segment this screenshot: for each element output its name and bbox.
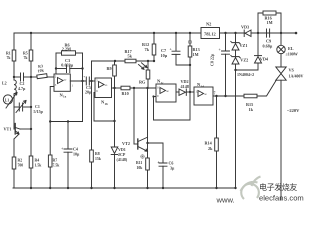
capacitor C8 column xyxy=(225,33,227,51)
svg-text:7k: 7k xyxy=(7,56,12,60)
wire N1c output xyxy=(176,91,179,93)
capacitor C3 xyxy=(67,65,70,73)
junction (235.5,70) xyxy=(234,69,236,71)
inductor L1 xyxy=(3,95,12,104)
resistor R11 xyxy=(146,158,150,170)
lamp EL xyxy=(280,33,282,45)
junction (56,68.5) xyxy=(55,67,57,69)
svg-text:RG: RG xyxy=(139,80,146,85)
resistor R7 xyxy=(48,155,52,167)
junction (163,188) xyxy=(162,187,164,189)
wire C6 branch xyxy=(148,143,164,163)
resistor R8 xyxy=(90,150,94,162)
svg-text:15k: 15k xyxy=(95,157,102,161)
junction (50.2,188) xyxy=(49,187,51,189)
wire C1 row xyxy=(14,106,19,108)
resistor R9 xyxy=(114,61,116,65)
capacitor C5 xyxy=(86,77,89,85)
wire R7 column xyxy=(49,122,51,156)
junction (258,33) xyxy=(257,32,259,34)
svg-text:12: 12 xyxy=(196,90,200,94)
svg-text:3µ: 3µ xyxy=(170,166,175,171)
wire C2 row xyxy=(14,76,20,78)
triac VS xyxy=(276,67,286,74)
capacitor C6 xyxy=(159,163,167,166)
resistor R13 column xyxy=(189,33,191,46)
junction (148,61) xyxy=(147,60,149,62)
junction (31,129) xyxy=(30,128,32,130)
junction (91.5,188) xyxy=(90,187,92,189)
zener VZ1 xyxy=(235,33,237,44)
wire C4 column xyxy=(67,122,69,149)
svg-text:+: + xyxy=(61,146,64,151)
svg-text:R2: R2 xyxy=(18,159,23,163)
wire N1b output row xyxy=(112,87,122,89)
wire left column x14 top xyxy=(13,33,15,50)
voltage regulator N2 box xyxy=(201,28,220,39)
junction (176,33) xyxy=(175,32,177,34)
resistor R17 xyxy=(125,59,136,63)
diode VD1 column xyxy=(114,155,116,189)
svg-text:10k: 10k xyxy=(137,166,144,170)
junction (154,61) xyxy=(153,60,155,62)
wire R13 down to VD2 node xyxy=(189,65,191,92)
svg-text:≤100W: ≤100W xyxy=(286,52,298,57)
junction (147.5,88) xyxy=(146,87,148,89)
wire top rail left xyxy=(14,32,201,34)
wire N1a output xyxy=(70,80,86,82)
junction (225.5,96) xyxy=(224,95,226,97)
wire R17 corner column xyxy=(91,61,93,81)
svg-text:+: + xyxy=(157,160,160,165)
junction (153.5,96.5) xyxy=(152,95,154,97)
wire bottom rail xyxy=(13,187,236,189)
junction (147.5,143) xyxy=(146,142,148,144)
svg-text:10: 10 xyxy=(157,86,161,90)
svg-text:R9: R9 xyxy=(107,66,112,71)
junction (31,188) xyxy=(30,187,32,189)
junction (82.5,81) xyxy=(81,80,83,82)
wire output column x82 xyxy=(82,53,84,122)
resistor R12 xyxy=(153,33,155,44)
mains terminal top xyxy=(295,32,298,35)
svg-text:R4: R4 xyxy=(35,159,40,163)
svg-text:7k: 7k xyxy=(145,47,150,52)
wire x31 column xyxy=(30,33,32,50)
svg-text:VS: VS xyxy=(289,68,295,73)
op-amp N1d xyxy=(194,87,213,105)
svg-text:20µ: 20µ xyxy=(85,90,92,95)
svg-text:2k: 2k xyxy=(208,146,213,151)
junction (225.5,33) xyxy=(224,32,226,34)
wire C5 to N1b xyxy=(89,80,95,82)
wire R4 to rail xyxy=(30,168,32,188)
capacitor C4 xyxy=(64,149,72,152)
svg-text:L1: L1 xyxy=(5,99,10,103)
wire R2 to rail xyxy=(13,169,15,188)
svg-text:(4148): (4148) xyxy=(117,157,128,162)
resistor R14 xyxy=(215,138,219,151)
svg-text:+: + xyxy=(83,75,85,79)
svg-text:1M: 1M xyxy=(267,20,273,25)
junction (14,77) xyxy=(13,76,15,78)
svg-text:10µ: 10µ xyxy=(73,152,80,157)
svg-text:1.5k: 1.5k xyxy=(35,164,43,168)
wire N1c underloop xyxy=(154,92,191,120)
op-amp N1c xyxy=(156,84,176,102)
wire collector xyxy=(20,128,31,130)
transistor VT1 xyxy=(14,124,16,135)
wire C3 row xyxy=(56,68,67,70)
resistor R2 xyxy=(12,157,16,169)
svg-text:1M: 1M xyxy=(193,52,199,57)
svg-text:5k: 5k xyxy=(128,54,133,59)
transistor VT2 xyxy=(137,139,139,149)
junction (114.5,121) xyxy=(113,120,115,122)
resistor R3 xyxy=(37,74,47,79)
junction (68,121.5) xyxy=(67,120,69,122)
wire R6 top left xyxy=(56,52,62,54)
junction (114.5,88) xyxy=(113,87,115,89)
wire L2 to VT1 base xyxy=(13,94,15,129)
wire R14 column xyxy=(216,96,218,138)
junction (68,188) xyxy=(67,187,69,189)
svg-text:~220V: ~220V xyxy=(287,108,300,113)
junction (31,107) xyxy=(30,106,32,108)
svg-text:1d: 1d xyxy=(201,84,205,88)
svg-text:10µ: 10µ xyxy=(161,53,168,58)
resistor R4 xyxy=(29,156,33,168)
svg-text:1k: 1k xyxy=(249,107,254,112)
svg-text:4.7µ: 4.7µ xyxy=(18,86,26,91)
svg-text:4148: 4148 xyxy=(181,84,189,89)
wire N1d output row xyxy=(213,95,244,97)
svg-text:∞: ∞ xyxy=(204,92,207,97)
svg-text:78L12: 78L12 xyxy=(204,31,216,36)
svg-text:5/15p: 5/15p xyxy=(34,109,44,114)
watermark logo xyxy=(241,177,261,200)
svg-text:1: 1 xyxy=(72,83,74,87)
wire RG/R11 column xyxy=(147,88,149,137)
feedback tap vertical left xyxy=(55,53,57,74)
svg-text:1A/400V: 1A/400V xyxy=(289,74,304,79)
svg-text:0.68µ: 0.68µ xyxy=(263,44,273,49)
wire R7 to rail xyxy=(49,167,51,188)
svg-text:EL: EL xyxy=(288,46,294,51)
svg-text:VZ2: VZ2 xyxy=(240,58,248,63)
junction (31,77) xyxy=(30,76,32,78)
resistor R5 xyxy=(29,50,33,61)
wire R5 to C2 node xyxy=(30,61,32,156)
junction (114.5,188) xyxy=(113,187,115,189)
svg-text:elecfans.com: elecfans.com xyxy=(259,194,304,203)
junction (50.2,121.5) xyxy=(49,120,51,122)
op-amp N1b xyxy=(95,78,112,98)
diode VD4 xyxy=(257,33,259,56)
trimmer capacitor C1 xyxy=(19,103,22,111)
capacitor C9 xyxy=(267,29,270,37)
svg-text:∞: ∞ xyxy=(166,89,169,94)
svg-text:7.5k: 7.5k xyxy=(53,164,61,168)
wire VT2 base column xyxy=(133,88,135,144)
adjust symbol R11 xyxy=(141,155,145,159)
junction (190,65) xyxy=(189,64,191,66)
svg-text:R5: R5 xyxy=(23,52,28,56)
svg-text:1N4004×2: 1N4004×2 xyxy=(237,72,254,77)
capacitor C2 xyxy=(21,73,24,81)
junction (154,33) xyxy=(153,32,155,34)
wire N1b lower pin loop xyxy=(94,93,115,122)
junction (82.5,68.5) xyxy=(81,67,83,69)
svg-text:0.033µ: 0.033µ xyxy=(61,62,73,67)
svg-text:10k: 10k xyxy=(37,67,45,73)
wire R6 top right xyxy=(76,52,83,54)
junction (147.5,188) xyxy=(146,187,148,189)
svg-text:7: 7 xyxy=(214,92,216,96)
junction (235.5,188) xyxy=(234,187,236,189)
junction (235.5,33) xyxy=(234,32,236,34)
svg-text:1a: 1a xyxy=(63,95,67,99)
svg-text:∞: ∞ xyxy=(64,77,67,82)
junction (31,33) xyxy=(30,32,32,34)
svg-text:VT2: VT2 xyxy=(122,141,130,146)
svg-text:VT1: VT1 xyxy=(4,127,12,132)
junction (190,33) xyxy=(189,32,191,34)
junction (281,33) xyxy=(280,32,282,34)
svg-text:∞: ∞ xyxy=(105,83,108,88)
svg-text:www.: www. xyxy=(216,196,235,205)
wire R17 row xyxy=(92,60,126,62)
zener VZ2 xyxy=(232,58,239,65)
photoresistor RG xyxy=(147,61,149,70)
variable coupling arrow xyxy=(6,93,17,109)
svg-text:L2: L2 xyxy=(2,81,7,86)
junction (190,92) xyxy=(189,91,191,93)
op-amp N1a xyxy=(54,74,70,91)
svg-text:700: 700 xyxy=(18,164,24,168)
wire R1 to C2 node xyxy=(13,61,15,80)
svg-text:R1: R1 xyxy=(6,52,11,56)
capacitor C7 xyxy=(172,51,180,54)
svg-text:R14: R14 xyxy=(205,141,213,146)
wire N1a underloop xyxy=(50,87,82,122)
wire R3 to N1a input xyxy=(47,76,54,78)
svg-text:C8 22µ: C8 22µ xyxy=(210,53,215,66)
diode VD3 xyxy=(245,30,251,37)
resistor R1 xyxy=(12,50,16,61)
svg-text:R11: R11 xyxy=(136,161,142,165)
svg-text:2.2M: 2.2M xyxy=(62,46,71,51)
svg-text:R10: R10 xyxy=(122,91,129,96)
diode VD1 xyxy=(111,147,118,154)
svg-text:VZ1: VZ1 xyxy=(240,43,248,48)
svg-text:R8: R8 xyxy=(95,152,100,156)
svg-text:VD4: VD4 xyxy=(260,57,269,62)
junction (134,88) xyxy=(133,87,135,89)
svg-text:电子发烧友: 电子发烧友 xyxy=(259,182,297,192)
resistor R10 xyxy=(121,86,130,90)
svg-text:7k: 7k xyxy=(24,56,29,60)
resistor R15 xyxy=(244,94,257,98)
adjust symbol R13 xyxy=(188,40,192,44)
svg-text:1b: 1b xyxy=(105,102,109,106)
svg-text:N2: N2 xyxy=(206,22,211,27)
capacitor C7 column xyxy=(175,33,177,51)
wire R15 to gate xyxy=(257,81,276,97)
svg-text:VD3: VD3 xyxy=(241,25,249,30)
inductor L2 xyxy=(14,80,16,94)
resistor R16 loop xyxy=(258,13,262,33)
diode VD2 xyxy=(179,89,186,95)
junction (216.5,96) xyxy=(215,95,217,97)
wire R3 row xyxy=(31,76,37,78)
junction (216.5,188) xyxy=(215,187,217,189)
junction (91.5,81) xyxy=(90,80,92,82)
junction (115,61) xyxy=(114,60,116,62)
resistor R6 xyxy=(62,51,76,55)
wire top rail right xyxy=(220,32,297,34)
wire VT1 emitter down xyxy=(13,139,15,157)
svg-text:R7: R7 xyxy=(53,159,58,163)
